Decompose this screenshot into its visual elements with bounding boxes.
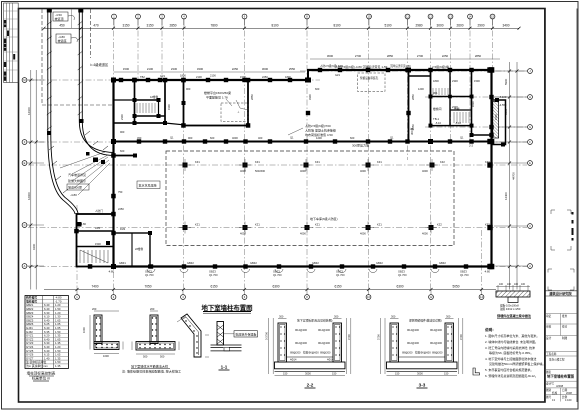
detail D3 bent wall — [181, 314, 201, 357]
svg-text:2100: 2100 — [147, 67, 154, 71]
svg-text:KZ1: KZ1 — [255, 223, 260, 227]
svg-text:2008: 2008 — [566, 391, 572, 395]
svg-text:结施: 结施 — [552, 391, 558, 395]
svg-text:2300: 2300 — [120, 114, 124, 120]
svg-text:8100: 8100 — [333, 24, 340, 28]
svg-text:1900: 1900 — [167, 104, 171, 110]
top wall B — [307, 69, 493, 71]
detail D4 column 1-1 — [211, 322, 242, 351]
svg-text:Q1: Q1 — [460, 136, 464, 140]
svg-text:2700: 2700 — [417, 54, 424, 58]
title block strip left edge — [544, 9, 546, 403]
svg-text:2850: 2850 — [387, 54, 394, 58]
stair room flight hatch — [137, 103, 155, 113]
svg-text:900: 900 — [120, 130, 125, 134]
svg-text:2850: 2850 — [411, 94, 415, 100]
detail D1 L-wall — [94, 315, 119, 350]
svg-text:Φ12@200: Φ12@200 — [318, 341, 330, 345]
svg-text:Q1 700: Q1 700 — [209, 273, 218, 277]
columns: black squares at grid/wall intersections — [119, 78, 123, 82]
svg-text:44700: 44700 — [512, 172, 516, 180]
svg-text:地下室墙柱布置图: 地下室墙柱布置图 — [201, 303, 252, 312]
svg-text:墙柱顶标高控制表: 墙柱顶标高控制表 — [27, 371, 56, 376]
stamp corner rect 1 — [551, 210, 571, 250]
svg-text:GBZ1: GBZ1 — [119, 261, 126, 265]
bubble digits — [23, 15, 531, 300]
svg-text:150: 150 — [444, 372, 449, 376]
svg-text:600: 600 — [210, 136, 215, 140]
svg-text:5050: 5050 — [452, 285, 459, 289]
svg-text:100: 100 — [499, 283, 504, 286]
svg-text:4000: 4000 — [360, 169, 366, 173]
svg-text:1-1: 1-1 — [221, 365, 228, 370]
svg-text:3600: 3600 — [327, 54, 334, 58]
svg-text:6150: 6150 — [210, 285, 217, 289]
boxed level label top ramp 1 — [53, 12, 68, 21]
svg-text:TB2: TB2 — [140, 75, 145, 79]
big room (machine room) — [184, 80, 249, 126]
block C stair hatch upper — [433, 88, 448, 95]
svg-text:500x500: 500x500 — [255, 169, 266, 173]
svg-text:预留设备吊装孔: 预留设备吊装孔 — [360, 76, 379, 80]
svg-text:汽车坡道详见: 汽车坡道详见 — [68, 172, 86, 177]
svg-text:2850: 2850 — [169, 24, 176, 28]
svg-text:500: 500 — [143, 355, 148, 359]
svg-text:贴建筑外保温板: 贴建筑外保温板 — [236, 331, 257, 336]
svg-text:1:100: 1:100 — [565, 398, 572, 402]
landing stair hatch — [80, 250, 108, 263]
svg-text:校对: 校对 — [562, 325, 568, 329]
svg-text:400: 400 — [258, 136, 263, 140]
svg-text:-4.550: -4.550 — [499, 103, 507, 107]
svg-text:KZ1: KZ1 — [195, 160, 200, 164]
top axis bubbles — [112, 14, 495, 19]
svg-text:Φ8@200: Φ8@200 — [290, 351, 301, 355]
left dimension lines — [30, 70, 32, 290]
U detail 3-3 — [387, 323, 458, 371]
right rotated dim texts — [504, 78, 516, 200]
svg-text:4000: 4000 — [422, 232, 428, 236]
svg-text:2100: 2100 — [196, 75, 202, 79]
long interior wall — [114, 141, 492, 143]
svg-text:锚板-100x100x8: 锚板-100x100x8 — [500, 304, 519, 308]
svg-text:150: 150 — [283, 372, 288, 376]
svg-text:坡道300厚: 坡道300厚 — [68, 185, 82, 190]
svg-text:4000: 4000 — [232, 136, 238, 140]
block C left wall — [430, 70, 432, 127]
svg-text:6300: 6300 — [272, 285, 279, 289]
svg-text:4. 地下室外墙与土接触面部位防水做法: 4. 地下室外墙与土接触面部位防水做法 — [485, 356, 536, 361]
svg-text:14400: 14400 — [504, 192, 508, 200]
side room right of right wall — [492, 100, 506, 145]
svg-text:GBZ2: GBZ2 — [187, 261, 194, 265]
svg-text:-4.80: -4.80 — [80, 222, 86, 226]
svg-text:3. 砼工号房内砼墙均采用抗渗砼, 抗渗: 3. 砼工号房内砼墙均采用抗渗砼, 抗渗 — [485, 345, 535, 350]
svg-text:3-3700: 3-3700 — [264, 331, 268, 340]
ramp wall end caps — [47, 9, 52, 13]
svg-text:梁侧预留锚件(做法见详图): 梁侧预留锚件(做法见详图) — [409, 319, 442, 323]
svg-text:5100: 5100 — [384, 24, 391, 28]
small room bottom-left — [114, 233, 151, 267]
svg-text:750: 750 — [118, 190, 123, 194]
svg-text:100: 100 — [507, 283, 512, 286]
svg-text:批准: 批准 — [562, 314, 568, 318]
svg-text:300厚剪力墙: 300厚剪力墙 — [352, 143, 369, 148]
svg-text:12600: 12600 — [27, 192, 31, 200]
svg-text:J2008: J2008 — [556, 384, 564, 388]
corridor wall y123 — [114, 122, 135, 124]
svg-text:GBZ2: GBZ2 — [250, 261, 257, 265]
svg-text:3000: 3000 — [262, 67, 269, 71]
svg-text:2330: 2330 — [452, 79, 458, 83]
svg-text:制图: 制图 — [562, 336, 568, 340]
svg-text:300: 300 — [391, 315, 396, 319]
svg-text:Φ12@200: Φ12@200 — [430, 341, 442, 345]
svg-text:470: 470 — [93, 24, 99, 28]
svg-text:A: A — [24, 264, 26, 268]
svg-text:E: E — [24, 161, 26, 165]
svg-text:某办公楼工程: 某办公楼工程 — [549, 358, 565, 362]
svg-text:1#楼梯: 1#楼梯 — [150, 95, 158, 99]
svg-text:-4.80: -4.80 — [484, 270, 490, 274]
bottom axis bubbles — [75, 295, 484, 300]
secondary top dim chain right — [310, 58, 500, 60]
bottom dimension line — [44, 289, 496, 291]
svg-text:5900: 5900 — [504, 78, 508, 85]
column cross ticks at free columns — [179, 159, 438, 234]
left axis bubbles — [22, 78, 27, 269]
svg-text:1000: 1000 — [82, 327, 86, 333]
svg-text:1200: 1200 — [418, 87, 424, 91]
svg-text:KZ2: KZ2 — [440, 160, 445, 164]
svg-text:2550: 2550 — [411, 124, 415, 130]
svg-text:8100: 8100 — [271, 24, 278, 28]
svg-text:TB-1: TB-1 — [433, 117, 440, 121]
svg-text:C: C — [24, 223, 26, 227]
svg-text:KZ3: KZ3 — [485, 160, 490, 164]
svg-text:E: E — [529, 161, 531, 165]
svg-text:GBZ3: GBZ3 — [460, 270, 467, 274]
svg-text:GBZ2: GBZ2 — [439, 261, 446, 265]
vertical axis dashed grid lines — [77, 19, 493, 289]
svg-text:预埋件在混凝土梁中做法: 预埋件在混凝土梁中做法 — [497, 313, 531, 318]
svg-text:Q1 700: Q1 700 — [145, 273, 154, 277]
svg-text:KZ1: KZ1 — [315, 223, 320, 227]
svg-text:i=-6级坡道区: i=-6级坡道区 — [90, 62, 109, 67]
svg-text:1500: 1500 — [123, 67, 130, 71]
svg-text:建筑设计研究院: 建筑设计研究院 — [548, 291, 572, 296]
svg-text:-5.10: -5.10 — [435, 121, 441, 125]
svg-text:KZ1: KZ1 — [377, 160, 382, 164]
svg-text:图别: 图别 — [546, 388, 552, 392]
svg-text:2250: 2250 — [232, 67, 239, 71]
wall stub y155 — [114, 155, 136, 157]
svg-text:450: 450 — [59, 24, 65, 28]
svg-text:2600: 2600 — [456, 24, 463, 28]
svg-text:GBZ3: GBZ3 — [145, 270, 152, 274]
svg-text:600: 600 — [350, 136, 355, 140]
svg-text:1000: 1000 — [103, 354, 109, 358]
svg-text:M: M — [23, 78, 25, 82]
secondary top dim chain left — [114, 71, 306, 73]
svg-text:3000: 3000 — [436, 24, 443, 28]
svg-text:2-2: 2-2 — [307, 383, 314, 388]
svg-text:JD1: JD1 — [433, 91, 438, 95]
small dim texts scattered on walls — [80, 64, 507, 277]
svg-text:Φ8@200: Φ8@200 — [432, 351, 443, 355]
svg-text:FM1: FM1 — [95, 226, 101, 230]
svg-text:1500: 1500 — [240, 75, 246, 79]
svg-text:1200: 1200 — [316, 136, 322, 140]
dashed footprint rectangle (parking area) — [166, 151, 454, 246]
svg-text:2-2: 2-2 — [469, 144, 473, 148]
svg-text:Q1 700: Q1 700 — [460, 273, 469, 277]
svg-text:GZ1: GZ1 — [335, 73, 341, 77]
small angle piece — [473, 368, 480, 375]
svg-text:GZ1: GZ1 — [160, 74, 166, 78]
ramp junction door blobs — [93, 158, 98, 163]
room B dashed equip pad — [358, 73, 386, 92]
top dimension line — [44, 27, 519, 29]
svg-text:600: 600 — [120, 149, 125, 153]
svg-text:150: 150 — [332, 372, 337, 376]
svg-text:Φ8@200: Φ8@200 — [402, 351, 413, 355]
svg-text:2700: 2700 — [355, 54, 362, 58]
svg-text:审核: 审核 — [546, 325, 552, 329]
svg-text:工程名称: 工程名称 — [546, 352, 557, 356]
svg-text:7400: 7400 — [91, 285, 98, 289]
svg-text:KZ1: KZ1 — [195, 223, 200, 227]
stair room (small) — [135, 80, 166, 123]
svg-text:-5.100: -5.100 — [499, 95, 507, 99]
svg-text:2.5级(6级)墙: 2.5级(6级)墙 — [432, 64, 449, 69]
svg-text:人防门: 人防门 — [95, 209, 103, 213]
svg-text:设计: 设计 — [546, 336, 552, 340]
title block company row — [545, 290, 578, 292]
svg-text:拉筋Φ6@600: 拉筋Φ6@600 — [303, 351, 319, 355]
wall stub y100 left — [114, 99, 135, 101]
svg-text:坡道顶: 坡道顶 — [55, 16, 64, 21]
svg-text:地下室顶板梁(标高见结施图): 地下室顶板梁(标高见结施图) — [297, 319, 332, 323]
strip rotated text marks — [4, 20, 15, 81]
bottom wall — [113, 265, 493, 267]
svg-text:说明：: 说明： — [485, 327, 496, 332]
svg-text:地下车库(6级人防区): 地下车库(6级人防区) — [310, 216, 338, 221]
svg-text:1500: 1500 — [474, 79, 480, 83]
strip column lines — [6, 3, 8, 83]
svg-text:14100: 14100 — [27, 107, 31, 115]
svg-text:KZ1: KZ1 — [377, 223, 382, 227]
svg-text:2250: 2250 — [262, 75, 268, 79]
svg-text:2850: 2850 — [475, 54, 482, 58]
svg-text:KZ2: KZ2 — [437, 223, 442, 227]
svg-text:等级为S6, 底板砼标号为-0.05N。: 等级为S6, 底板砼标号为-0.05N。 — [489, 350, 533, 355]
ramp leader fan — [60, 152, 110, 195]
right dimension lines — [509, 62, 511, 290]
svg-text:6. 预埋件详见总说明及配筋图见J9-12。: 6. 预埋件详见总说明及配筋图见J9-12。 — [485, 373, 538, 378]
svg-text:3300: 3300 — [308, 94, 312, 100]
svg-text:平面配筋见 1:78: 平面配筋见 1:78 — [206, 95, 228, 100]
table tiny texts — [26, 296, 62, 368]
dashed footprint L at ramp — [42, 9, 113, 105]
svg-text:100: 100 — [521, 283, 526, 286]
svg-text:6150: 6150 — [334, 285, 341, 289]
ramp inner wall (double line) — [79, 9, 113, 153]
stamp corner rect 2 — [548, 269, 574, 290]
svg-text:Φ14@200: Φ14@200 — [430, 328, 442, 332]
svg-text:GBZ3: GBZ3 — [209, 270, 216, 274]
svg-text:3300: 3300 — [197, 67, 204, 71]
svg-text:2250: 2250 — [442, 54, 449, 58]
svg-text:2250: 2250 — [118, 207, 124, 211]
svg-text:4000: 4000 — [240, 169, 246, 173]
svg-text:300: 300 — [334, 315, 339, 319]
svg-text:3000: 3000 — [305, 372, 311, 376]
svg-text:2850: 2850 — [250, 94, 254, 100]
block C stair hatch lower — [454, 112, 469, 123]
svg-text:人防2.5级(6级)-4.80: 人防2.5级(6级)-4.80 — [320, 64, 344, 68]
svg-text:4000: 4000 — [422, 169, 428, 173]
svg-text:楼梯平台150X250梁: 楼梯平台150X250梁 — [204, 90, 231, 95]
svg-text:7050: 7050 — [144, 285, 151, 289]
svg-text:Φ12@200: Φ12@200 — [295, 341, 307, 345]
svg-text:1500: 1500 — [494, 114, 498, 120]
svg-text:图名: 图名 — [546, 370, 552, 374]
svg-text:Q1 700: Q1 700 — [273, 273, 282, 277]
svg-text:锚筋 4Φ12 L=250: 锚筋 4Φ12 L=250 — [500, 307, 521, 311]
svg-text:设计号: 设计号 — [546, 382, 554, 386]
top wall A — [113, 79, 309, 81]
wall jog — [307, 69, 309, 81]
left sign-off strip table — [4, 3, 19, 83]
svg-text:500: 500 — [160, 355, 165, 359]
top dim ticks — [43, 27, 521, 30]
svg-text:GBZ3: GBZ3 — [273, 270, 280, 274]
lift hatch strip — [493, 102, 499, 139]
svg-text:GBZ3: GBZ3 — [336, 270, 343, 274]
svg-text:300: 300 — [446, 315, 451, 319]
svg-text:2550: 2550 — [289, 67, 296, 71]
svg-text:7800: 7800 — [210, 24, 217, 28]
svg-text:GBZ3: GBZ3 — [398, 270, 405, 274]
svg-text:1. 图中尺寸标高单位为米、其他为毫米。: 1. 图中尺寸标高单位为米、其他为毫米。 — [485, 333, 539, 338]
svg-text:Φ12@200: Φ12@200 — [407, 341, 419, 345]
svg-text:G: G — [529, 125, 531, 129]
svg-text:FM2: FM2 — [120, 227, 126, 231]
svg-text:3700: 3700 — [459, 334, 463, 340]
svg-text:6300: 6300 — [32, 243, 36, 250]
embedment plate detail — [496, 291, 530, 297]
svg-text:3700: 3700 — [377, 334, 381, 340]
svg-text:地下室墙体水平筋做法大样: 地下室墙体水平筋做法大样 — [131, 363, 168, 368]
svg-text:2330: 2330 — [171, 67, 178, 71]
svg-text:900: 900 — [186, 87, 191, 91]
svg-text:4000: 4000 — [300, 169, 306, 173]
svg-text:200: 200 — [150, 307, 155, 311]
svg-text:1630: 1630 — [471, 101, 475, 107]
svg-text:审定: 审定 — [546, 314, 552, 318]
svg-text:Q1: Q1 — [290, 136, 294, 140]
svg-text:人防墙 混凝土抗渗等级: 人防墙 混凝土抗渗等级 — [305, 128, 336, 133]
svg-text:Φ14@200: Φ14@200 — [295, 328, 307, 332]
svg-text:为m 其余単位mm: 为m 其余単位mm — [26, 364, 48, 368]
room B right wall — [408, 70, 410, 142]
svg-text:拉筋Φ6@600: 拉筋Φ6@600 — [415, 351, 431, 355]
svg-text:3-3: 3-3 — [419, 383, 426, 388]
svg-text:Q1 700: Q1 700 — [398, 273, 407, 277]
top dim texts — [59, 24, 509, 28]
svg-text:Φ14@200: Φ14@200 — [318, 328, 330, 332]
horizontal axis dashed grid lines — [28, 71, 527, 267]
svg-text:KZ1: KZ1 — [255, 160, 260, 164]
svg-text:Φ14@200: Φ14@200 — [407, 328, 419, 332]
svg-text:2100: 2100 — [210, 74, 216, 78]
wall stub y76 between rooms — [409, 75, 431, 77]
svg-text:3000: 3000 — [417, 372, 423, 376]
svg-text:3150: 3150 — [146, 24, 153, 28]
svg-text:楼梯间: 楼梯间 — [433, 107, 442, 111]
landing interior walls — [77, 230, 114, 232]
building left wall — [112, 80, 114, 267]
svg-text:1.35: 1.35 — [55, 364, 61, 368]
svg-text:见建筑做法50mm厚挤塑聚苯板上保护墙。: 见建筑做法50mm厚挤塑聚苯板上保护墙。 — [489, 361, 545, 366]
svg-text:注: 墙体纵筋见柱表相应配筋值, 按大样施工: 注: 墙体纵筋见柱表相应配筋值, 按大样施工 — [122, 368, 181, 373]
svg-text:GBZ2: GBZ2 — [312, 261, 319, 265]
svg-text:2. 墙体中线均与轴线重合, 未注明详图。: 2. 墙体中线均与轴线重合, 未注明详图。 — [485, 339, 538, 344]
right axis bubbles — [528, 69, 533, 269]
svg-text:人防2.5级(6级)/700: 人防2.5级(6级)/700 — [305, 123, 331, 128]
svg-text:Q1: Q1 — [390, 136, 394, 140]
bottom wall arc marks under columns — [147, 269, 439, 273]
svg-text:Q1 700: Q1 700 — [336, 273, 345, 277]
svg-text:200: 200 — [92, 307, 97, 311]
svg-text:3700: 3700 — [347, 334, 351, 340]
svg-text:-5.10: -5.10 — [455, 121, 461, 125]
svg-text:图号: 图号 — [546, 395, 552, 399]
svg-text:6300: 6300 — [396, 285, 403, 289]
block C interior walls — [431, 96, 472, 98]
svg-text:450: 450 — [137, 136, 142, 140]
title block right strip border — [576, 9, 578, 403]
svg-text:KZ3: KZ3 — [485, 223, 490, 227]
svg-text:1800: 1800 — [433, 79, 439, 83]
svg-text:Φ8@200: Φ8@200 — [320, 351, 331, 355]
svg-text:-4.80: -4.80 — [108, 270, 114, 274]
svg-text:2900: 2900 — [477, 24, 484, 28]
svg-text:2980: 2980 — [415, 24, 422, 28]
svg-text:1500: 1500 — [95, 242, 101, 246]
svg-text:1800: 1800 — [180, 74, 186, 78]
sign rows — [545, 314, 578, 402]
svg-text:100: 100 — [514, 283, 519, 286]
detail D2 T-wall — [136, 315, 175, 350]
stamp vertical text — [572, 212, 574, 241]
U detail 2-2 — [275, 323, 346, 371]
stair room interior walls — [135, 99, 159, 101]
svg-text:KZ1: KZ1 — [315, 160, 320, 164]
svg-text:4Φ14: 4Φ14 — [290, 358, 297, 362]
right wall — [490, 69, 492, 268]
svg-text:H: H — [529, 95, 531, 99]
svg-text:3150: 3150 — [122, 24, 129, 28]
svg-text:C: C — [529, 224, 531, 228]
ramp landing stair block — [77, 214, 114, 267]
svg-text:3400: 3400 — [502, 24, 509, 28]
svg-text:4000: 4000 — [240, 232, 246, 236]
svg-text:900: 900 — [188, 136, 193, 140]
svg-text:4000: 4000 — [300, 232, 306, 236]
svg-text:4000: 4000 — [360, 232, 366, 236]
